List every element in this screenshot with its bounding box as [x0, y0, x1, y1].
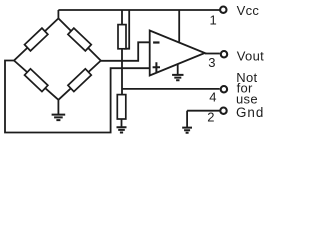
wire: op-amp ground stem	[177, 64, 179, 75]
ground (bridge bottom)	[52, 115, 66, 121]
op-amp - sign	[153, 41, 159, 43]
bridge resistor (top-right arm)	[68, 28, 91, 51]
svg-text:4: 4	[209, 89, 217, 104]
wire: bridge left vertex around bottom to op-amp + input	[5, 61, 150, 133]
wire: op-amp output to pin 3	[205, 53, 220, 55]
wire: bridge top stub	[57, 10, 59, 18]
svg-text:Vcc: Vcc	[237, 3, 260, 18]
wire: R2 bottom lead	[121, 119, 123, 127]
svg-text:Gnd: Gnd	[236, 105, 264, 120]
terminal pin 4	[221, 86, 227, 92]
wire: R1 top lead	[121, 10, 123, 25]
svg-text:2: 2	[207, 110, 215, 125]
terminal pin 1	[220, 7, 226, 13]
svg-text:3: 3	[208, 55, 216, 70]
resistor R1 (upper series)	[118, 25, 126, 49]
bridge arm bottom-left	[14, 61, 58, 100]
svg-text:Vout: Vout	[237, 49, 264, 64]
op-amp U1	[150, 31, 205, 76]
ground (R2 bottom)	[117, 127, 127, 132]
bridge resistor (bottom-left arm)	[25, 69, 48, 92]
wire: node to pin 4	[122, 88, 220, 90]
terminal pin 3	[221, 51, 227, 57]
wire: top Vcc rail	[58, 9, 219, 11]
bridge arm top-right	[58, 18, 100, 60]
bridge arm top-left	[14, 18, 58, 60]
wire: rail drop to R1 bottom node	[124, 10, 129, 49]
ground (op-amp)	[172, 75, 183, 80]
wire: pin 2 ground stem	[186, 111, 188, 128]
ground (pin 2)	[182, 128, 192, 133]
terminal pin 2	[220, 108, 226, 114]
svg-text:1: 1	[210, 12, 218, 27]
resistor R2 (lower series)	[117, 95, 126, 119]
wire: R1 bottom lead down to R2	[121, 49, 123, 95]
wire: bridge bottom stem to ground	[57, 100, 59, 115]
bridge arm bottom-right	[58, 61, 100, 100]
wire: bridge right vertex to op-amp - input	[101, 42, 150, 61]
bridge resistor (top-left arm)	[25, 28, 48, 51]
wire: pin 2 wire	[187, 110, 220, 112]
op-amp + sign	[153, 62, 160, 72]
bridge resistor (bottom-right arm)	[68, 69, 91, 92]
wire: op-amp power stub	[178, 10, 180, 42]
